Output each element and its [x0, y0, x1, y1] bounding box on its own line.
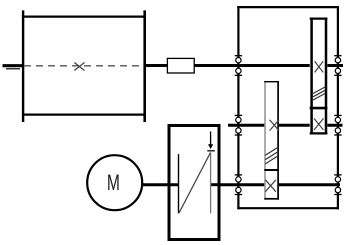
- bearing: output shaft left: [235, 56, 242, 76]
- node X: wheel Z2 on intermediate shaft: [270, 120, 279, 131]
- node: drum center X: [74, 63, 84, 71]
- shaft: motor to variator: [142, 183, 179, 186]
- mesh divider Z4/Z1: [310, 107, 328, 110]
- drum centerline (dashed): [24, 65, 144, 67]
- node X: pinion Z3 on input shaft: [265, 180, 276, 192]
- variator left pulley: [178, 154, 180, 213]
- variator box: [169, 126, 219, 240]
- coupling: [167, 58, 194, 73]
- variator output stub: [211, 183, 221, 186]
- svg-text:M: M: [107, 170, 120, 195]
- drum left wall: [22, 10, 24, 122]
- node X: pinion Z1 on intermediate shaft: [314, 118, 324, 130]
- gearbox frame top: [237, 6, 339, 8]
- gear pair column (wheel Z4 + pinion Z1): [310, 18, 328, 135]
- drum bottom: [22, 113, 146, 115]
- hatch on wheel Z2: [265, 147, 278, 164]
- bearing: output shaft right: [334, 56, 341, 76]
- bearing: intermediate shaft left: [235, 115, 242, 135]
- shaft: output end: [326, 64, 343, 67]
- gear pair column (wheel Z2 + pinion Z3): [264, 81, 279, 200]
- variator right pulley: [210, 153, 212, 214]
- gearbox frame right vertical: [337, 6, 339, 209]
- gearbox frame bottom: [237, 207, 339, 209]
- node X: wheel Z4 on output shaft: [315, 61, 324, 72]
- mesh divider Z2/Z3: [264, 169, 279, 171]
- variator belt diagonal: [179, 153, 211, 214]
- shaft: coupling to gear Z4: [194, 64, 312, 67]
- input shaft: variator to gearbox: [211, 183, 340, 186]
- hatch on wheel Z4: [313, 87, 325, 100]
- drum shaft stub left: [3, 64, 24, 67]
- intermediate shaft: [228, 124, 343, 127]
- drum shaft stub underline: [6, 68, 20, 70]
- drum right wall: [143, 10, 146, 122]
- drum top: [22, 16, 146, 18]
- bearing: input shaft right: [334, 175, 341, 195]
- shaft: drum to coupling: [144, 64, 168, 67]
- gearbox frame left vertical: [237, 6, 239, 209]
- bearing: intermediate shaft right: [334, 115, 341, 135]
- bearing: input shaft left: [235, 175, 242, 195]
- variator adjustment arrow: [207, 132, 215, 151]
- motor M: [87, 155, 142, 210]
